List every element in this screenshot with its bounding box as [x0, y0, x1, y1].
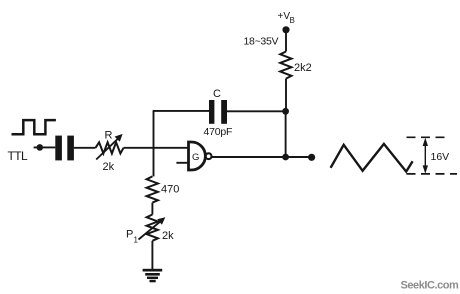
wire resistor R to gate input — [124, 147, 189, 149]
svg-text:SeekIC.com: SeekIC.com — [401, 280, 460, 292]
supply terminal +VB — [282, 26, 289, 33]
amplitude arrow 16V — [423, 138, 428, 174]
wire: feedback vertical branch — [153, 111, 155, 176]
wire supply terminal to resistor 2k2 — [285, 30, 287, 52]
resistor R (variable, 2k) — [96, 134, 124, 160]
wire capacitor C to supply node — [227, 110, 286, 112]
op-amp gate G (NAND body) — [189, 142, 206, 170]
svg-text:470: 470 — [161, 184, 179, 196]
ground — [143, 269, 163, 283]
wire capacitor to resistor R — [74, 147, 96, 149]
svg-text:470pF: 470pF — [204, 126, 233, 138]
dashed level line bottom — [407, 173, 458, 175]
wire input dot to coupling capacitor — [34, 146, 56, 148]
potentiometer P1 (2k) — [139, 215, 166, 241]
node: input terminal dot — [37, 144, 44, 151]
svg-text:2k2: 2k2 — [294, 62, 312, 74]
resistor 470 — [147, 176, 158, 202]
svg-text:2k: 2k — [103, 161, 115, 173]
wire: feedback top run to capacitor C — [153, 110, 209, 112]
node: output junction dot — [282, 154, 289, 161]
svg-text:G: G — [192, 152, 199, 163]
wire potentiometer to ground — [151, 241, 153, 270]
svg-text:+V: +V — [278, 11, 291, 22]
capacitor C 470pF — [209, 100, 227, 124]
svg-text:B: B — [290, 16, 295, 25]
wire resistor 470 to potentiometer P1 — [151, 203, 153, 215]
svg-text:18~35V: 18~35V — [244, 36, 279, 48]
node: output terminal dot — [308, 154, 315, 161]
svg-text:R: R — [105, 130, 113, 142]
wire resistor 2k2 to junction — [285, 79, 287, 112]
node: feedback / supply junction dot — [282, 108, 289, 115]
svg-text:1: 1 — [134, 236, 139, 245]
svg-text:C: C — [213, 88, 221, 100]
wire gate output to output terminal — [212, 156, 312, 158]
svg-text:16V: 16V — [431, 151, 450, 163]
TTL square-wave input symbol — [12, 120, 56, 134]
gate output inversion bubble — [206, 153, 212, 159]
wire junction down to output line — [285, 111, 287, 157]
svg-text:P: P — [126, 229, 133, 241]
svg-text:TTL: TTL — [8, 149, 28, 163]
coupling capacitor (input) — [55, 136, 74, 161]
resistor 2k2 — [280, 52, 291, 79]
gate G bottom input stub — [176, 162, 188, 164]
dashed level line top — [407, 136, 445, 138]
triangle output waveform — [331, 144, 413, 172]
svg-text:2k: 2k — [162, 230, 174, 242]
